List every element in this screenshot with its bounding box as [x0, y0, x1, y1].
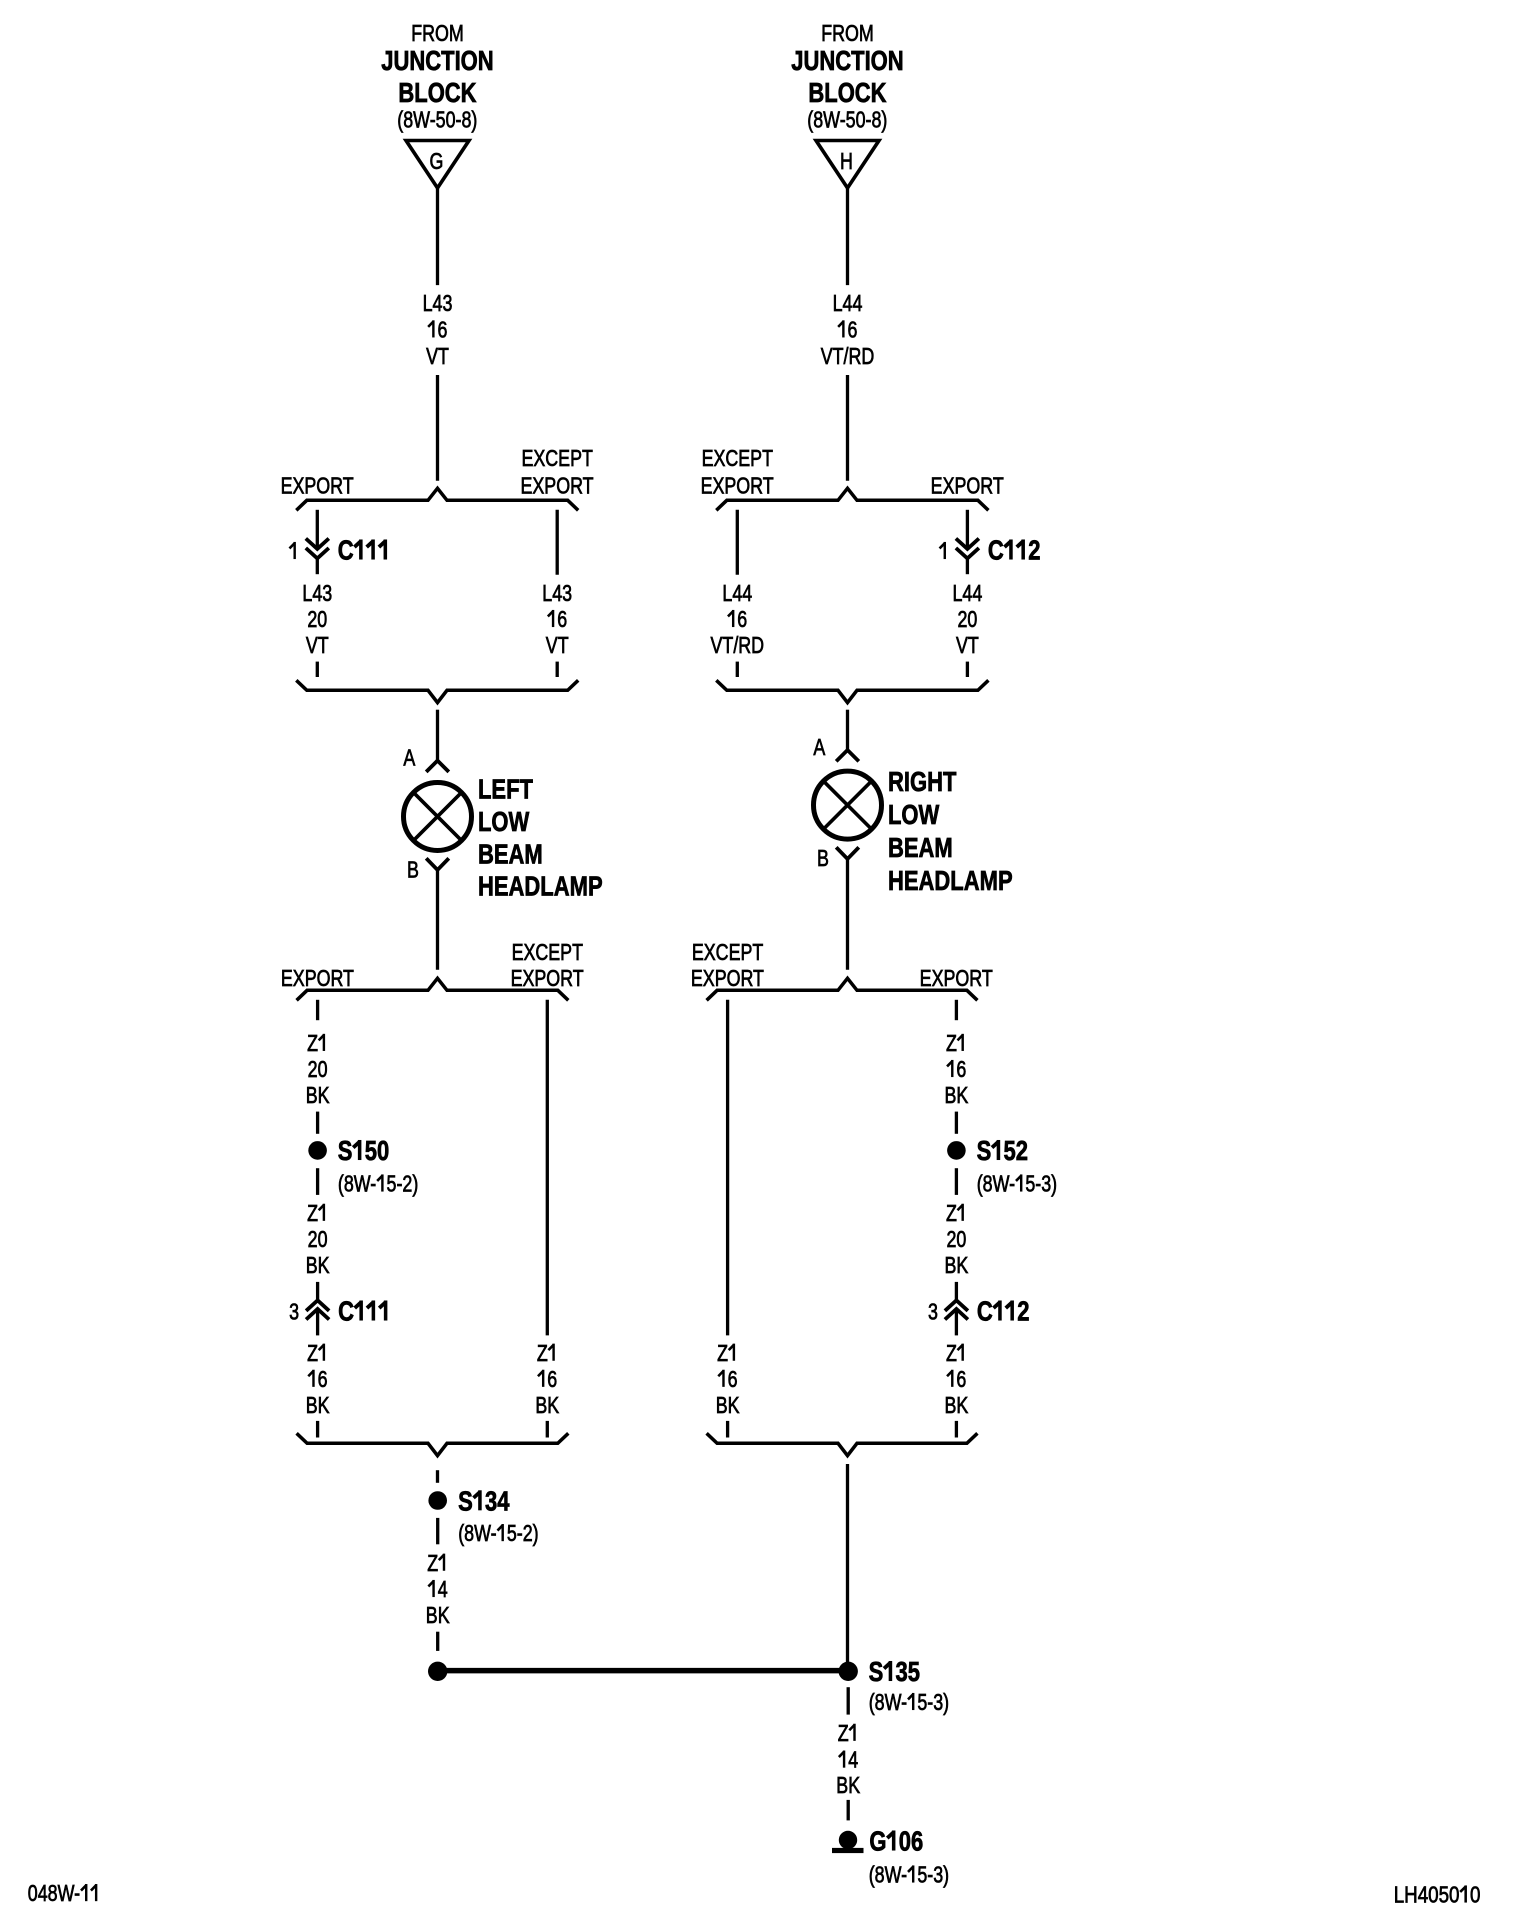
- headlamp pin B connector fork: [836, 847, 859, 859]
- svg-text:BK: BK: [426, 1603, 450, 1629]
- split bracket (top, section 2): [297, 978, 569, 1000]
- wire (other-market branch): [556, 510, 559, 575]
- svg-text:EXCEPT: EXCEPT: [512, 940, 584, 966]
- svg-text:5-2): 5-2): [387, 1171, 419, 1197]
- svg-text:FROM: FROM: [411, 21, 464, 47]
- svg-text:BEAM: BEAM: [888, 833, 953, 864]
- svg-text:RIGHT: RIGHT: [888, 767, 956, 798]
- wire (except-export ground branch): [726, 1000, 729, 1336]
- node: FROM JUNCTION BLOCK feed G: [381, 21, 493, 133]
- wire L44 from triangle H: [846, 188, 849, 285]
- node: FROM JUNCTION BLOCK feed H: [791, 21, 903, 133]
- splice S135: [839, 1662, 858, 1681]
- wire label Z1 20 BK: [306, 1201, 330, 1279]
- svg-text:20: 20: [308, 1227, 328, 1253]
- lamp symbol: LEFT LOW BEAM HEADLAMP: [404, 783, 472, 851]
- svg-text:EXCEPT: EXCEPT: [521, 446, 593, 472]
- wire dash: [726, 1421, 729, 1438]
- svg-text:VT/RD: VT/RD: [821, 344, 875, 370]
- svg-text:LOW: LOW: [478, 807, 530, 838]
- merge bracket (bottom, section 2): [707, 1433, 978, 1455]
- svg-text:EXPORT: EXPORT: [520, 473, 593, 499]
- svg-text:6: 6: [956, 1057, 966, 1083]
- svg-text:6: 6: [956, 1367, 966, 1393]
- svg-text:6: 6: [728, 1367, 738, 1393]
- wire stub to merge bracket (left): [736, 662, 739, 677]
- svg-text:2: 2: [1028, 535, 1040, 566]
- wire stub to merge bracket (left): [316, 662, 319, 677]
- wire dash: [546, 1421, 549, 1438]
- svg-text:JUNCTION: JUNCTION: [381, 46, 493, 77]
- wire label Z1 16 BK: [716, 1341, 740, 1419]
- svg-text:4: 4: [438, 1577, 448, 1603]
- svg-text:S: S: [338, 1136, 353, 1167]
- wire dash: [316, 1168, 319, 1195]
- wire label L43 16 VT: [542, 581, 572, 659]
- wire dash: [955, 1168, 958, 1195]
- svg-text:(8W-50-8): (8W-50-8): [807, 107, 887, 133]
- lamp symbol: RIGHT LOW BEAM HEADLAMP: [814, 771, 882, 839]
- svg-text:048W-: 048W-: [28, 1881, 80, 1907]
- svg-text:20: 20: [946, 1227, 966, 1253]
- label EXCEPT EXPORT (left branch): [691, 940, 764, 992]
- svg-text:EXPORT: EXPORT: [701, 473, 774, 499]
- svg-text:L43: L43: [542, 581, 572, 607]
- svg-text:BK: BK: [944, 1253, 968, 1279]
- wire label L44 16 VT/RD: [711, 581, 765, 659]
- svg-text:L43: L43: [302, 581, 332, 607]
- svg-text:JUNCTION: JUNCTION: [791, 46, 903, 77]
- svg-text:(8W-: (8W-: [458, 1521, 496, 1547]
- svg-text:BK: BK: [306, 1083, 330, 1109]
- wire dash: [847, 1687, 850, 1714]
- connector C111 (in-line, pin 1) symbol: [306, 539, 329, 575]
- wire label Z1 16 BK: [306, 1341, 330, 1419]
- svg-text:BK: BK: [944, 1083, 968, 1109]
- svg-text:A: A: [403, 745, 415, 771]
- svg-text:6: 6: [557, 607, 567, 633]
- svg-text:G: G: [430, 149, 444, 175]
- split bracket (top, section 2): [707, 978, 978, 1000]
- svg-text:35: 35: [896, 1657, 921, 1688]
- wire label Z1 export: [306, 1031, 330, 1109]
- svg-text:L44: L44: [953, 581, 983, 607]
- wire from headlamp pin B to split: [846, 859, 849, 970]
- svg-text:50: 50: [365, 1136, 389, 1167]
- svg-text:A: A: [813, 735, 825, 761]
- svg-text:(8W-: (8W-: [869, 1862, 907, 1888]
- svg-text:EXPORT: EXPORT: [281, 473, 354, 499]
- svg-text:BK: BK: [535, 1393, 559, 1419]
- wire label Z1 export: [944, 1031, 968, 1109]
- wire from merge to splice S135: [846, 1464, 849, 1663]
- svg-text:5-3): 5-3): [917, 1690, 949, 1716]
- svg-text:Z: Z: [537, 1341, 548, 1367]
- svg-text:EXPORT: EXPORT: [511, 966, 584, 992]
- wire label L44 VT/RD: [821, 291, 875, 370]
- connector C112 (in-line, pin 1) symbol: [956, 539, 979, 575]
- svg-text:S: S: [977, 1136, 992, 1167]
- component name LEFT LOW BEAM HEADLAMP: [478, 774, 603, 902]
- split bracket (top, section 1): [716, 488, 988, 510]
- svg-text:20: 20: [307, 607, 327, 633]
- svg-text:LEFT: LEFT: [478, 774, 533, 805]
- wire dash: [955, 1421, 958, 1438]
- svg-text:Z: Z: [307, 1201, 318, 1227]
- svg-text:G: G: [869, 1826, 886, 1857]
- svg-text:(8W-: (8W-: [869, 1690, 907, 1716]
- wire dash: [847, 1800, 850, 1821]
- svg-text:VT: VT: [546, 633, 569, 659]
- svg-text:6: 6: [848, 317, 858, 343]
- svg-text:0: 0: [1470, 1882, 1480, 1909]
- svg-text:34: 34: [485, 1486, 510, 1517]
- svg-text:LOW: LOW: [888, 800, 940, 831]
- svg-text:C: C: [988, 535, 1004, 566]
- wire label L43 20 VT: [302, 581, 332, 659]
- ground G106 symbol: [832, 1831, 864, 1853]
- svg-text:S: S: [869, 1657, 884, 1688]
- pin number 1 of C111: [293, 542, 295, 559]
- wire L43 to split: [436, 375, 439, 481]
- svg-text:Z: Z: [946, 1341, 957, 1367]
- wire stub to merge bracket (right): [966, 662, 969, 677]
- headlamp pin A connector fork: [426, 761, 449, 772]
- svg-text:C: C: [338, 1296, 354, 1327]
- wire dash: [436, 1632, 439, 1651]
- svg-text:BEAM: BEAM: [478, 839, 543, 870]
- wire label Z1 16 BK: [944, 1341, 968, 1419]
- svg-text:C: C: [338, 535, 354, 566]
- svg-text:L44: L44: [722, 581, 752, 607]
- wire from headlamp pin B to split: [436, 870, 439, 970]
- svg-text:Z: Z: [946, 1201, 957, 1227]
- wire into connector C112 pin 3: [955, 1282, 958, 1300]
- svg-text:Z: Z: [307, 1031, 318, 1057]
- svg-text:Z: Z: [717, 1341, 728, 1367]
- merge bracket (bottom, section 2): [297, 1433, 569, 1455]
- svg-text:52: 52: [1004, 1136, 1028, 1167]
- wire into connector C111 pin 3: [316, 1282, 319, 1300]
- svg-text:EXCEPT: EXCEPT: [702, 446, 774, 472]
- wire to headlamp pin A: [846, 710, 849, 750]
- svg-text:EXCEPT: EXCEPT: [692, 940, 764, 966]
- svg-text:06: 06: [899, 1826, 923, 1857]
- wire label Z1 16 BK: [535, 1341, 559, 1419]
- merge bracket (bottom, section 1): [296, 680, 578, 702]
- svg-text:(8W-: (8W-: [338, 1171, 376, 1197]
- svg-text:BK: BK: [306, 1253, 330, 1279]
- svg-text:VT: VT: [306, 633, 329, 659]
- svg-text:VT/RD: VT/RD: [711, 633, 765, 659]
- wire dash: [316, 1421, 319, 1438]
- svg-text:EXPORT: EXPORT: [281, 966, 354, 992]
- wire to headlamp pin A: [436, 710, 439, 761]
- connector C112 (in-line, pin 3) symbol: [945, 1300, 968, 1335]
- svg-text:5-3): 5-3): [1025, 1171, 1057, 1197]
- svg-text:2: 2: [1017, 1296, 1029, 1327]
- wire dash: [436, 1518, 439, 1544]
- svg-text:L43: L43: [423, 291, 453, 317]
- component name RIGHT LOW BEAM HEADLAMP: [888, 767, 1013, 897]
- splice S134: [428, 1491, 447, 1510]
- svg-text:B: B: [407, 857, 419, 883]
- svg-text:LH4050: LH4050: [1394, 1882, 1460, 1909]
- headlamp pin A connector fork: [836, 750, 859, 761]
- svg-text:3: 3: [289, 1299, 299, 1325]
- svg-text:BK: BK: [716, 1393, 740, 1419]
- svg-text:Z: Z: [427, 1551, 438, 1577]
- svg-text:6: 6: [318, 1367, 328, 1393]
- svg-text:EXPORT: EXPORT: [920, 966, 993, 992]
- svg-text:HEADLAMP: HEADLAMP: [478, 871, 603, 902]
- pin number 1 of C112: [944, 542, 946, 559]
- wire label Z1 14 BK: [426, 1551, 450, 1629]
- svg-text:Z: Z: [838, 1721, 849, 1747]
- wire into connector C111 pin 1: [316, 510, 319, 549]
- wire label L43 VT: [423, 291, 453, 370]
- wire (other-market branch): [736, 510, 739, 575]
- svg-text:BLOCK: BLOCK: [398, 78, 476, 109]
- svg-text:VT: VT: [956, 633, 979, 659]
- label EXCEPT EXPORT (right branch): [520, 446, 593, 499]
- svg-text:3: 3: [928, 1299, 938, 1325]
- junction block connector triangle G: [406, 141, 469, 189]
- merge bracket (bottom, section 1): [716, 680, 988, 702]
- svg-text:6: 6: [547, 1367, 557, 1393]
- svg-text:20: 20: [308, 1057, 328, 1083]
- svg-text:B: B: [817, 846, 829, 872]
- svg-text:4: 4: [848, 1747, 858, 1773]
- wire tie Z1 to splice S135: [438, 1668, 849, 1674]
- svg-text:(8W-: (8W-: [977, 1171, 1015, 1197]
- splice S152: [947, 1141, 966, 1160]
- wire stub to merge bracket (right): [556, 662, 559, 677]
- split bracket (top, section 1): [296, 488, 578, 510]
- splice S150: [308, 1141, 327, 1160]
- svg-text:(8W-50-8): (8W-50-8): [397, 107, 477, 133]
- wire label Z1 20 BK: [944, 1201, 968, 1279]
- svg-text:5-2): 5-2): [507, 1521, 539, 1547]
- wire label Z1 14 BK: [836, 1721, 860, 1799]
- wire into connector C112 pin 1: [966, 510, 969, 549]
- svg-text:FROM: FROM: [821, 21, 874, 47]
- svg-text:BK: BK: [306, 1393, 330, 1419]
- svg-text:BLOCK: BLOCK: [808, 78, 886, 109]
- svg-text:Z: Z: [946, 1031, 957, 1057]
- svg-text:6: 6: [737, 607, 747, 633]
- svg-text:5-3): 5-3): [917, 1862, 949, 1888]
- svg-text:BK: BK: [836, 1773, 860, 1799]
- junction node (left end of tie): [428, 1662, 447, 1681]
- label EXCEPT EXPORT (right branch): [511, 940, 584, 992]
- svg-text:20: 20: [957, 607, 977, 633]
- svg-text:Z: Z: [307, 1341, 318, 1367]
- svg-text:6: 6: [438, 317, 448, 343]
- svg-text:VT: VT: [426, 344, 449, 370]
- svg-text:L44: L44: [833, 291, 863, 317]
- svg-text:EXPORT: EXPORT: [931, 473, 1004, 499]
- svg-text:HEADLAMP: HEADLAMP: [888, 866, 1013, 897]
- wire dash: [955, 1000, 958, 1020]
- label EXCEPT EXPORT (left branch): [701, 446, 774, 499]
- svg-text:H: H: [840, 149, 853, 175]
- svg-text:EXPORT: EXPORT: [691, 966, 764, 992]
- wire dash: [316, 1112, 319, 1134]
- svg-text:S: S: [458, 1486, 473, 1517]
- wire (except-export ground branch): [546, 1000, 549, 1336]
- svg-text:C: C: [977, 1296, 993, 1327]
- wire L43 from triangle G: [436, 188, 439, 285]
- wire L44 to split: [846, 375, 849, 481]
- wire dash: [316, 1000, 319, 1020]
- junction block connector triangle H: [816, 141, 879, 189]
- headlamp pin B connector fork: [426, 858, 449, 870]
- svg-text:BK: BK: [944, 1393, 968, 1419]
- connector C111 (in-line, pin 3) symbol: [306, 1300, 329, 1335]
- wire dash to splice S134: [436, 1470, 439, 1483]
- wire dash: [955, 1112, 958, 1134]
- wire label L44 20 VT: [953, 581, 983, 659]
